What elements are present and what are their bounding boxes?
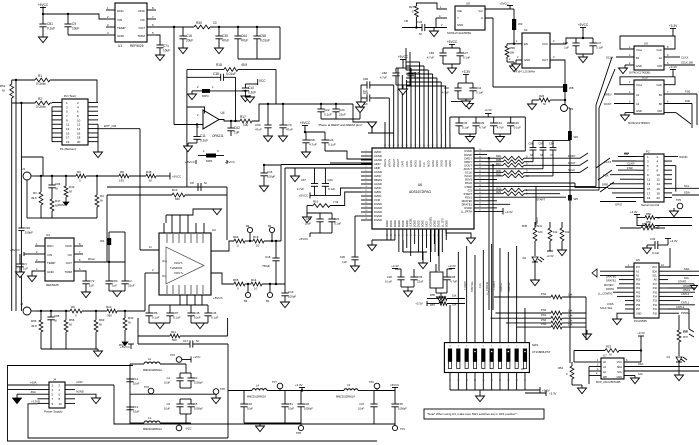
- svg-text:R58: R58: [510, 46, 516, 50]
- ground mid top: [246, 95, 255, 103]
- svg-text:P10: P10: [653, 312, 658, 315]
- svg-text:10uF: 10uF: [133, 410, 140, 414]
- svg-text:R19: R19: [253, 235, 259, 239]
- svg-text:U6: U6: [418, 183, 422, 187]
- svg-text:VCC: VCC: [542, 42, 548, 46]
- svg-text:C16: C16: [267, 170, 273, 174]
- svg-text:SCLK: SCLK: [606, 56, 613, 60]
- svg-text:DGND: DGND: [434, 220, 436, 227]
- resistor R11b: [487, 187, 599, 193]
- svg-text:+VCC: +VCC: [193, 355, 201, 359]
- op-amp U1 REF5025 box: [115, 3, 147, 48]
- capacitor C21: [321, 132, 335, 151]
- svg-text:+3.3VD: +3.3VD: [31, 400, 40, 404]
- ground AIN rail: [291, 168, 300, 182]
- svg-text:TP3: TP3: [170, 353, 175, 357]
- wire AINN to pin: [281, 164, 372, 166]
- capacitor C85: [47, 311, 59, 334]
- wire SW1 top feeds: [449, 244, 527, 348]
- wire P2 r9: [612, 192, 636, 194]
- U6 top pins: [384, 133, 452, 167]
- svg-text:NI: NI: [419, 32, 422, 36]
- wire DAC0 vertical: [536, 187, 539, 225]
- wire J4 right rail: [114, 385, 374, 424]
- wire power outer loop: [8, 366, 378, 442]
- jumper 8JP1: [185, 149, 236, 164]
- svg-text:+5VCC: +5VCC: [38, 3, 49, 7]
- svg-text:VREFP: VREFP: [393, 159, 396, 167]
- wire diagonals U9U10: [596, 57, 615, 108]
- wire U5 p13: [668, 301, 695, 305]
- power +5VCC x1: [576, 23, 593, 39]
- svg-text:C12: C12: [133, 377, 139, 381]
- svg-text:CNTL1: CNTL1: [681, 301, 690, 305]
- test point B1: [266, 284, 273, 303]
- wire R16 right riser: [330, 192, 361, 206]
- jumper 8JP2: [188, 85, 247, 100]
- wire chainA vert: [130, 364, 133, 424]
- svg-text:R40: R40: [128, 316, 134, 320]
- svg-text:C18: C18: [265, 255, 271, 259]
- svg-text:R13: R13: [172, 188, 178, 192]
- svg-text:VOUT-: VOUT-: [174, 261, 183, 265]
- svg-text:100: 100: [683, 330, 688, 334]
- ferrite W8: [563, 84, 574, 105]
- ground U6 bottom left: [368, 245, 377, 251]
- wire filter bottom rail: [238, 27, 280, 59]
- wire U8A route: [493, 86, 563, 88]
- svg-text:R50: R50: [642, 222, 647, 226]
- ic U3 REF5025 box: [45, 233, 74, 287]
- power +3.3V R50: [630, 210, 640, 226]
- svg-text:ADS1672IPAG: ADS1672IPAG: [409, 190, 432, 194]
- ground RCM: [58, 202, 69, 207]
- svg-text:OGND: OGND: [679, 155, 687, 159]
- svg-text:PN11: PN11: [535, 224, 542, 228]
- ic U5 box: [634, 258, 659, 323]
- svg-text:C81: C81: [288, 402, 293, 406]
- ferrite W1: [100, 232, 125, 262]
- ground C71: [156, 55, 165, 61]
- svg-text:DGND: DGND: [415, 220, 417, 227]
- svg-text:CLKR: CLKR: [627, 162, 634, 166]
- svg-text:FPATH: FPATH: [606, 287, 614, 291]
- power +3.3V R55: [415, 299, 439, 307]
- svg-text:DGND: DGND: [423, 220, 425, 227]
- svg-text:CAP2: CAP2: [402, 160, 405, 167]
- power +3.3V U7: [637, 331, 645, 362]
- resistor R17: [240, 115, 252, 127]
- capacitor C81c: [281, 391, 294, 424]
- capacitor C87: [166, 305, 180, 323]
- svg-text:AE: AE: [654, 279, 658, 282]
- svg-text:#O: #O: [521, 368, 524, 371]
- svg-text:VREFN: VREFN: [384, 159, 387, 167]
- capacitor C95 series: [18, 226, 33, 311]
- wire u6 dec b: [436, 287, 447, 297]
- svg-text:PN3: PN3: [541, 322, 547, 326]
- svg-text:L4: L4: [256, 384, 260, 388]
- ground U9: [619, 68, 628, 74]
- svg-text:+5VCC: +5VCC: [299, 237, 308, 241]
- wire P2 OE: [618, 152, 636, 157]
- svg-text:NI: NI: [128, 321, 131, 325]
- switch SW1 box: [444, 343, 529, 373]
- svg-text:SN74LVC1G125DBL: SN74LVC1G125DBL: [447, 31, 472, 35]
- svg-text:100: 100: [243, 123, 249, 127]
- test point TP3: [170, 353, 191, 362]
- svg-text:C44: C44: [497, 121, 503, 125]
- svg-text:C26: C26: [334, 217, 340, 221]
- svg-text:DGND: DGND: [395, 220, 397, 227]
- svg-text:DRATE1: DRATE1: [500, 282, 503, 292]
- svg-text:R50: R50: [646, 212, 651, 216]
- svg-text:NI: NI: [69, 323, 72, 327]
- resistor R02: [487, 173, 553, 179]
- test point TP7: [272, 380, 283, 391]
- connector J1: [22, 167, 36, 180]
- svg-text:A1: A1: [659, 56, 663, 60]
- ground C86 C87: [149, 323, 170, 329]
- svg-text:W5: W5: [574, 197, 579, 201]
- svg-text:C22: C22: [324, 108, 330, 112]
- capacitor C13: [126, 405, 139, 414]
- ground R54: [578, 388, 587, 394]
- wire REFM: [330, 162, 372, 164]
- svg-text:SDA: SDA: [638, 362, 644, 366]
- svg-text:GND: GND: [47, 270, 55, 274]
- svg-text:R3: R3: [33, 191, 37, 195]
- ground TP6: [212, 387, 226, 404]
- svg-text:DVDD: DVDD: [419, 220, 421, 227]
- svg-text:LL_CFG: LL_CFG: [442, 218, 444, 227]
- test point TP5: [176, 423, 191, 431]
- capacitor C41: [469, 83, 483, 99]
- capacitor C8 series: [190, 181, 207, 191]
- wire P2 diag: [596, 158, 614, 192]
- capacitor C6b: [164, 399, 191, 414]
- resistor R0A: [487, 154, 580, 160]
- capacitor C53: [305, 213, 324, 233]
- wire U5 p16: [668, 288, 695, 292]
- capacitor C58: [253, 27, 270, 59]
- svg-text:P13: P13: [653, 300, 658, 303]
- svg-text:P2: P2: [646, 150, 650, 154]
- wire filter left edge: [183, 27, 194, 36]
- svg-text:TEMP: TEMP: [117, 26, 126, 30]
- svg-text:P14: P14: [653, 296, 658, 299]
- resistor R18: [216, 63, 247, 71]
- connector J2: [20, 302, 36, 315]
- ground C16b: [260, 186, 269, 192]
- svg-text:B1: B1: [266, 299, 270, 303]
- wire U5 p14: [668, 300, 680, 302]
- svg-text:1000pF: 1000pF: [304, 407, 313, 411]
- svg-text:GND: GND: [117, 34, 125, 38]
- capacitor C30: [215, 27, 229, 48]
- resistor R4: [95, 176, 104, 218]
- power +3.3V under U6: [391, 264, 399, 269]
- wire left bus A: [15, 80, 17, 311]
- resistor R3: [31, 176, 43, 218]
- ground top right corner: [451, 102, 474, 109]
- svg-text:OSC1: OSC1: [683, 288, 691, 292]
- svg-text:0.1uF: 0.1uF: [152, 316, 160, 320]
- capacitor C18: [262, 241, 280, 284]
- svg-text:RBIAS: RBIAS: [374, 178, 382, 182]
- svg-text:C67: C67: [301, 178, 307, 182]
- svg-text:10: 10: [59, 402, 63, 406]
- svg-text:PN4: PN4: [541, 318, 547, 322]
- svg-text:DVDD: DVDD: [391, 220, 393, 227]
- capacitor C46b: [507, 117, 521, 134]
- svg-text:TP9: TP9: [676, 198, 681, 202]
- svg-text:R10: R10: [106, 305, 112, 309]
- capacitor C24: [332, 104, 346, 119]
- ground J2 net: [94, 351, 103, 357]
- wire R14 out: [262, 283, 285, 285]
- svg-text:AGND: AGND: [374, 158, 382, 162]
- ground C11: [184, 146, 193, 152]
- svg-text:AGND: AGND: [76, 390, 84, 394]
- svg-text:C38: C38: [213, 72, 219, 76]
- svg-text:100pF: 100pF: [288, 295, 296, 299]
- svg-text:P06: P06: [636, 304, 641, 307]
- svg-text:CNTL0: CNTL0: [681, 292, 690, 296]
- wire J1 feed branch: [21, 157, 43, 176]
- svg-text:OUT: OUT: [66, 261, 73, 265]
- svg-text:+6VA: +6VA: [30, 381, 37, 385]
- ground R16: [303, 217, 312, 223]
- svg-text:C83: C83: [429, 51, 435, 55]
- ground D1: [675, 375, 684, 381]
- svg-text:+5VCC: +5VCC: [390, 383, 399, 387]
- svg-text:MMZ2012R601A: MMZ2012R601A: [247, 396, 266, 399]
- svg-text:J3: J3: [570, 107, 573, 111]
- resistor R29: [487, 190, 560, 196]
- svg-text:+6VD: +6VD: [76, 380, 83, 384]
- svg-text:GND: GND: [616, 376, 622, 379]
- svg-text:PCA9535: PCA9535: [634, 319, 647, 323]
- wire chainB bottom: [244, 423, 301, 426]
- svg-text:U3: U3: [46, 233, 50, 237]
- svg-text:C10: C10: [248, 86, 254, 90]
- svg-text:C20: C20: [328, 178, 334, 182]
- svg-text:RSV1: RSV1: [465, 195, 473, 199]
- svg-text:NI: NI: [540, 153, 543, 157]
- wire cap rail tr: [450, 117, 525, 151]
- ground chainB: [256, 426, 265, 432]
- connector J3: [561, 105, 574, 112]
- wire U5 p17: [668, 284, 695, 288]
- svg-text:DGND: DGND: [374, 206, 382, 210]
- svg-text:B3: B3: [244, 299, 248, 303]
- svg-text:GND: GND: [524, 58, 530, 62]
- wire J1 shield: [27, 180, 41, 218]
- svg-text:DRR: DRR: [602, 183, 608, 187]
- X1 left pins: [514, 39, 522, 64]
- svg-text:C9: C9: [72, 22, 76, 26]
- capacitor C72: [82, 271, 94, 292]
- svg-text:TP7: TP7: [272, 380, 277, 384]
- svg-text:Vccb: Vccb: [656, 83, 662, 87]
- ic U6 ADS1672 box: [372, 148, 474, 229]
- wire R18 frame: [187, 69, 276, 187]
- svg-text:W6: W6: [574, 135, 579, 139]
- svg-text:13: 13: [647, 182, 651, 186]
- U3 pin stubs: [35, 242, 83, 271]
- svg-text:NI: NI: [54, 319, 57, 323]
- svg-text:C68: C68: [309, 138, 315, 142]
- wire cl3 gnd: [458, 99, 473, 101]
- svg-text:0.01uF: 0.01uF: [260, 39, 270, 43]
- svg-text:CLKSEL: CLKSEL: [411, 217, 413, 227]
- wire +3.3VD: [28, 400, 228, 439]
- svg-text:C84: C84: [55, 182, 61, 186]
- capacitor C28: [407, 68, 421, 85]
- capacitor C35b: [391, 391, 407, 425]
- svg-text:FS0: FS0: [685, 90, 691, 94]
- svg-text:Power Supply: Power Supply: [44, 410, 63, 414]
- ferrite W5: [568, 195, 578, 363]
- svg-text:NI: NI: [530, 153, 533, 157]
- svg-text:R53: R53: [606, 345, 612, 349]
- wire row CAP2: [487, 168, 543, 170]
- wire U5 vcc: [668, 248, 670, 267]
- wire misc bus left of X1: [0, 0, 1, 1]
- svg-text:CNTL2: CNTL2: [676, 305, 685, 309]
- svg-text:750pF: 750pF: [262, 264, 270, 268]
- capacitor C39: [472, 117, 486, 134]
- svg-text:47uF: 47uF: [241, 39, 248, 43]
- svg-text:20uF: 20uF: [186, 39, 193, 43]
- svg-text:+5VCC: +5VCC: [499, 2, 508, 6]
- svg-text:WP: WP: [603, 376, 607, 379]
- svg-text:NI: NI: [55, 187, 58, 191]
- ground C80 C2: [109, 291, 125, 297]
- svg-text:/OE: /OE: [457, 9, 462, 13]
- wire X1 out: [550, 55, 565, 84]
- resistor R6: [70, 305, 82, 318]
- svg-text:DNC: DNC: [47, 244, 54, 248]
- wire J1 net bottom: [41, 217, 97, 219]
- header J4 box: [44, 378, 65, 414]
- svg-text:47uF: 47uF: [222, 39, 229, 43]
- U10 pins right: [664, 90, 697, 113]
- svg-text:1000pF: 1000pF: [194, 407, 203, 411]
- svg-text:DCKT: DCKT: [604, 102, 612, 106]
- wire J4 pin8: [0, 0, 1, 1]
- svg-text:DGND: DGND: [446, 220, 448, 227]
- svg-text:R1: R1: [38, 74, 42, 78]
- svg-text:1uF: 1uF: [112, 284, 117, 288]
- svg-text:C30: C30: [222, 34, 228, 38]
- svg-text:C64: C64: [241, 34, 247, 38]
- capacitor C5b: [180, 399, 203, 423]
- resistor R65: [233, 278, 245, 291]
- svg-text:AINN: AINN: [374, 162, 380, 166]
- svg-text:+3.3V: +3.3V: [549, 392, 557, 396]
- ground PN9: [558, 250, 567, 256]
- svg-text:CT21883LPST: CT21883LPST: [532, 350, 551, 354]
- wire U1 TRIM to C71: [156, 35, 160, 45]
- svg-text:U8: U8: [466, 2, 470, 6]
- svg-text:C71: C71: [163, 44, 169, 48]
- svg-text:22uF: 22uF: [339, 113, 346, 117]
- resistor R13: [172, 188, 185, 201]
- svg-text:P05: P05: [636, 300, 641, 303]
- svg-text:D2: D2: [523, 256, 527, 260]
- ground u6 dec: [404, 291, 413, 297]
- switch SW1 labels: [521, 343, 551, 371]
- svg-text:P1 (Bottom): P1 (Bottom): [60, 147, 76, 151]
- capacitor C38 feedback: [187, 72, 236, 121]
- svg-text:19: 19: [66, 140, 70, 144]
- ic X1 box: [514, 28, 550, 74]
- svg-text:DAC0: DAC0: [536, 217, 539, 224]
- wire row RSV: [487, 179, 497, 181]
- wire rows bus3: [487, 186, 596, 188]
- resistor R47: [50, 199, 61, 218]
- svg-text:VREFP: VREFP: [397, 159, 400, 167]
- svg-text:AGND: AGND: [415, 160, 418, 167]
- capacitor C30b: [240, 391, 253, 424]
- wire P2 r6: [620, 178, 636, 180]
- svg-text:R56: R56: [69, 318, 75, 322]
- resistor R52: [0, 80, 14, 311]
- wire U5 p15: [668, 292, 693, 296]
- inductor L4: [247, 384, 302, 399]
- svg-text:49.9: 49.9: [31, 324, 37, 328]
- svg-text:R52: R52: [0, 84, 6, 88]
- svg-text:NI: NI: [657, 216, 660, 220]
- svg-text:10k: 10k: [565, 230, 570, 234]
- resistor PN11: [535, 222, 558, 251]
- svg-text:0.01uF: 0.01uF: [226, 72, 236, 76]
- svg-text:1uF: 1uF: [342, 260, 347, 264]
- wire R27 cm label: [404, 19, 408, 23]
- wire J4 pin2: [75, 380, 114, 385]
- wire chainC bottom: [374, 423, 395, 425]
- svg-text:B1: B1: [636, 56, 640, 60]
- wire tr gnd2: [494, 134, 511, 137]
- wire DVDD top right: [0, 0, 1, 1]
- svg-text:C45: C45: [462, 121, 468, 125]
- svg-text:INT: INT: [636, 266, 640, 269]
- svg-text:C70: C70: [286, 123, 292, 127]
- ground x1 caps: [579, 57, 588, 63]
- svg-text:U5: U5: [636, 258, 640, 262]
- svg-text:360: 360: [107, 314, 112, 318]
- svg-text:18: 18: [657, 191, 661, 195]
- svg-text:OUT: OUT: [542, 58, 548, 62]
- svg-text:F DRDY: F DRDY: [464, 281, 467, 290]
- svg-text:4.7uF: 4.7uF: [450, 280, 457, 284]
- svg-text:R4: R4: [100, 194, 104, 198]
- capacitor C68: [302, 132, 316, 152]
- svg-text:CLKX: CLKX: [681, 56, 688, 60]
- svg-text:DRDY: DRDY: [568, 154, 576, 158]
- svg-text:B1: B1: [659, 93, 663, 97]
- svg-text:7.0k: 7.0k: [333, 200, 339, 204]
- ground C43: [643, 248, 652, 254]
- U1 pin stubs right: [147, 6, 156, 35]
- ground X1: [512, 64, 521, 70]
- wire P2 DRR: [602, 183, 636, 187]
- svg-text:1uF: 1uF: [234, 131, 240, 135]
- svg-text:Vcca: Vcca: [636, 48, 642, 52]
- capacitor C16: [179, 34, 193, 48]
